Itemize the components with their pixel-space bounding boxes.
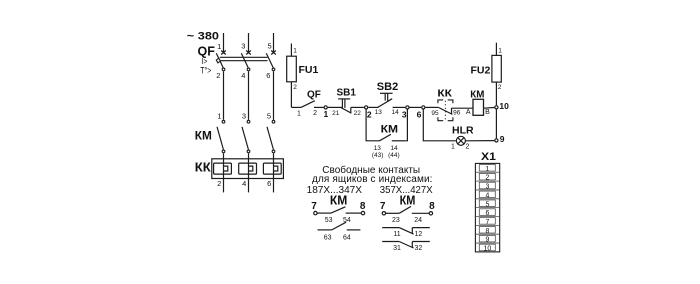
svg-text:22: 22 (354, 110, 362, 117)
svg-text:23: 23 (392, 217, 400, 224)
svg-text:21: 21 (332, 110, 340, 117)
svg-text:96: 96 (453, 110, 461, 117)
svg-text:95: 95 (431, 110, 439, 117)
svg-text:B: B (485, 109, 490, 116)
svg-text:11: 11 (393, 231, 400, 238)
fuse FU1 (287, 44, 297, 108)
fuse FU2 (492, 43, 501, 105)
contactor KM aux contact (NO 13-14) (380, 134, 406, 141)
pushbutton SB2 (NO start) (368, 93, 405, 107)
svg-text:10: 10 (484, 246, 492, 253)
svg-text:SB1: SB1 (337, 88, 357, 99)
svg-text:5: 5 (268, 41, 272, 50)
svg-text:T°>: T°> (200, 66, 211, 76)
wire L2 QF to KM (248, 71, 250, 120)
svg-text:8: 8 (429, 201, 435, 212)
svg-text:~ 380: ~ 380 (187, 31, 219, 43)
wire KK out 3 (273, 179, 275, 193)
node 1 (324, 106, 327, 109)
wire L3 QF to KM (273, 71, 275, 120)
svg-text:6: 6 (266, 71, 270, 80)
svg-text:КМ: КМ (470, 89, 484, 100)
wire lamp to node9 (466, 140, 494, 142)
svg-text:64: 64 (343, 234, 351, 241)
free contact KM 53-54 (314, 207, 365, 215)
svg-text:1: 1 (297, 111, 301, 118)
svg-text:2: 2 (216, 71, 220, 80)
terminal X1:7 (479, 218, 495, 225)
svg-text:4: 4 (485, 192, 489, 199)
wire node3 to node6 (410, 106, 422, 108)
circuit breaker QF pole 3 (266, 51, 276, 71)
thermal relay KK heater 2 (239, 159, 257, 179)
terminal X1:2 (479, 173, 495, 180)
node 6 (422, 106, 425, 109)
wire L1 QF to KM (223, 71, 225, 120)
thermal relay KK aux dashed bracket (438, 100, 453, 121)
contactor KM main contact pole 2 (242, 120, 250, 152)
svg-text:1: 1 (217, 42, 221, 51)
svg-text:КМ: КМ (195, 131, 212, 143)
svg-text:8: 8 (360, 201, 366, 212)
svg-text:КМ: КМ (400, 194, 416, 208)
svg-text:3: 3 (485, 184, 489, 191)
svg-text:10: 10 (499, 101, 509, 111)
free contact KM 11-12 (NC) (382, 228, 430, 235)
svg-text:63: 63 (324, 234, 332, 241)
wire node6 to KK contact (425, 106, 438, 108)
svg-text:FU2: FU2 (470, 64, 490, 76)
circuit breaker QF pole 2 (241, 51, 251, 71)
thermal relay KK aux dotted axis (444, 101, 446, 121)
svg-text:КК: КК (195, 160, 211, 174)
thermal relay KK box (212, 159, 284, 179)
svg-text:6: 6 (417, 110, 422, 120)
svg-text:(43): (43) (372, 152, 384, 159)
svg-text:24: 24 (414, 217, 422, 224)
svg-text:3: 3 (242, 112, 246, 121)
wire KK out 2 (248, 179, 250, 193)
svg-text:4: 4 (241, 71, 245, 80)
svg-text:(44): (44) (388, 152, 400, 159)
svg-text:1: 1 (217, 112, 221, 121)
free contact KM 63-64 (318, 222, 361, 230)
svg-text:1: 1 (485, 166, 489, 173)
terminal X1:5 (479, 200, 495, 207)
wire KM to KK pole 1 (223, 153, 225, 159)
terminal X1:9 (479, 235, 495, 242)
svg-text:2: 2 (313, 110, 317, 117)
terminal X1:6 (479, 209, 495, 216)
thermal relay KK heater 3 (263, 159, 281, 179)
wire node1 to SB1 (328, 106, 342, 108)
wire phase L3 top (273, 33, 275, 52)
terminal X1:4 (479, 191, 495, 198)
thermal relay KK heater 1 (214, 159, 232, 179)
svg-text:A: A (466, 109, 471, 116)
svg-text:3: 3 (241, 41, 245, 50)
svg-text:КК: КК (437, 89, 453, 100)
svg-text:12: 12 (415, 231, 423, 238)
svg-text:для ящиков с индексами:: для ящиков с индексами: (312, 174, 433, 185)
terminal block X1 body (475, 163, 499, 252)
svg-text:2: 2 (293, 84, 297, 91)
wire right rail node10 to node9 (495, 109, 497, 138)
svg-text:QF: QF (307, 90, 321, 101)
breaker aux contact QF (291, 101, 323, 108)
contactor KM main contact pole 3 (267, 120, 275, 152)
wire node6 drop to lamp (423, 110, 456, 141)
svg-text:5: 5 (485, 201, 489, 208)
circuit breaker QF pole 1 (216, 51, 226, 71)
svg-text:X1: X1 (481, 151, 496, 163)
circuit breaker QF labels (198, 44, 216, 75)
svg-text:1: 1 (451, 143, 455, 150)
svg-text:8: 8 (485, 228, 489, 235)
svg-text:2: 2 (367, 109, 372, 119)
terminal X1:10 (479, 244, 495, 251)
wire node3 drop (405, 110, 407, 141)
svg-text:31: 31 (393, 245, 401, 252)
terminal X1:1 (479, 165, 495, 172)
circuit breaker QF linkage handle (216, 58, 220, 63)
svg-text:14: 14 (391, 109, 399, 116)
wire coil to node10 (483, 107, 494, 110)
node 3 (406, 106, 409, 109)
svg-text:32: 32 (415, 245, 423, 252)
svg-text:1: 1 (293, 48, 297, 55)
node 10 (495, 106, 498, 109)
svg-text:6: 6 (485, 210, 489, 217)
svg-text:2: 2 (466, 144, 470, 151)
free contact KM 23-24 (382, 206, 432, 215)
thermal relay KK aux contact (NC 95-96) (438, 107, 473, 114)
svg-text:2: 2 (217, 179, 221, 188)
svg-text:13: 13 (375, 109, 383, 116)
wire KM to KK pole 2 (248, 153, 250, 159)
svg-text:2: 2 (485, 175, 489, 182)
wire KK out 1 (223, 179, 225, 193)
svg-text:КМ: КМ (381, 123, 398, 135)
terminal block X1 cells (475, 165, 499, 253)
free contact KM 31-32 (NC) (382, 242, 430, 249)
svg-text:7: 7 (380, 201, 386, 212)
svg-text:4: 4 (242, 179, 246, 188)
svg-text:9: 9 (485, 237, 489, 244)
lamp HLR (456, 136, 465, 145)
pushbutton SB1 (NC stop) (338, 99, 364, 113)
terminal X1:8 (479, 227, 495, 234)
svg-text:FU1: FU1 (299, 64, 319, 76)
svg-text:3: 3 (402, 109, 407, 119)
svg-text:6: 6 (267, 179, 271, 188)
node 9 (495, 139, 498, 142)
svg-text:SB2: SB2 (377, 81, 398, 93)
terminal X1:3 (479, 182, 495, 189)
circuit breaker QF linkage bar (220, 57, 268, 60)
node 2 (365, 106, 368, 109)
wire phase L1 top (223, 33, 225, 52)
contactor KM main contact pole 1 (217, 120, 225, 152)
wire node2 drop to KM aux (366, 110, 379, 141)
svg-text:1: 1 (498, 47, 502, 54)
wire KM to KK pole 3 (273, 153, 275, 159)
svg-text:КМ: КМ (330, 194, 347, 208)
svg-text:5: 5 (267, 112, 271, 121)
svg-text:53: 53 (325, 217, 333, 224)
contactor coil KM (473, 99, 484, 115)
svg-text:9: 9 (500, 134, 505, 144)
svg-text:7: 7 (311, 201, 317, 212)
svg-text:HLR: HLR (452, 124, 474, 136)
wire phase L2 top (248, 33, 250, 52)
svg-text:2: 2 (498, 84, 502, 91)
svg-text:7: 7 (485, 219, 489, 226)
svg-text:1: 1 (324, 109, 329, 119)
